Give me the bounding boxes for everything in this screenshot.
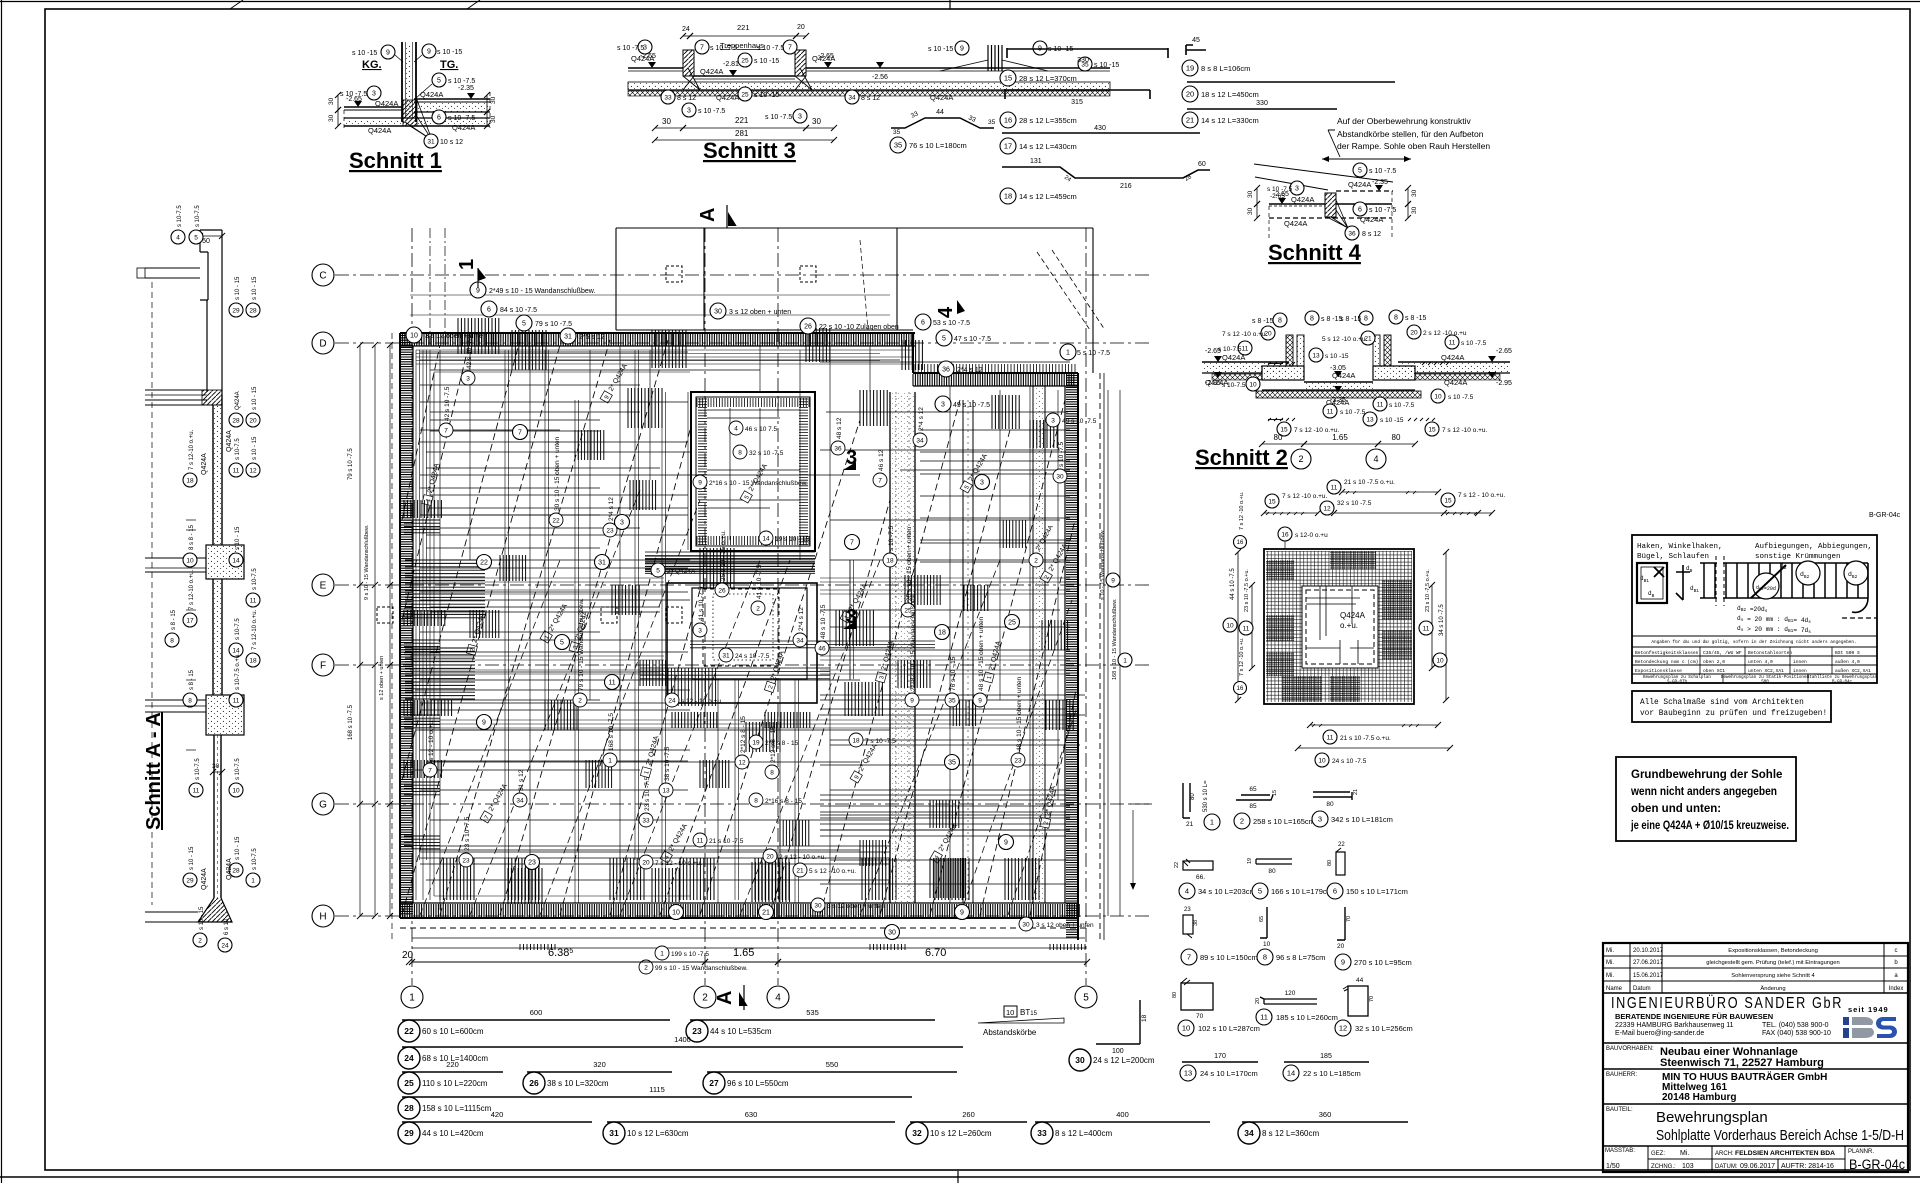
svg-text:-2.65: -2.65 <box>1270 193 1285 200</box>
svg-text:3: 3 <box>372 90 376 97</box>
S4 ramp slope lines <box>1254 164 1393 182</box>
AA upper wall <box>206 300 208 392</box>
svg-text:342 s 10 L=181cm: 342 s 10 L=181cm <box>1331 815 1393 824</box>
svg-text:46 s 10 7.5: 46 s 10 7.5 <box>745 426 778 433</box>
upper pit inner lines <box>707 408 800 540</box>
svg-text:28 s 12 L=370cm: 28 s 12 L=370cm <box>1019 74 1077 83</box>
svg-text:12: 12 <box>249 467 257 474</box>
svg-text:18: 18 <box>886 557 894 564</box>
svg-text:21: 21 <box>762 909 770 916</box>
svg-text:Bewehrungsplan zu Statik-Posit: Bewehrungsplan zu Statik-Positionen <box>1721 675 1809 680</box>
svg-text:5: 5 <box>1258 887 1262 896</box>
svg-text:4: 4 <box>1185 887 1189 896</box>
svg-text:46 s 12: 46 s 12 <box>878 449 885 471</box>
svg-text:2 s 12 -10 o.+u: 2 s 12 -10 o.+u <box>1423 330 1467 337</box>
schedule 25 <box>402 1071 503 1073</box>
svg-text:48 s 10 -7.5: 48 s 10 -7.5 <box>820 604 827 639</box>
svg-text:80: 80 <box>1274 433 1283 442</box>
svg-text:3 s 12 oben + unten: 3 s 12 oben + unten <box>425 333 487 340</box>
svg-text:20: 20 <box>402 950 414 961</box>
S1 dim right 30-30 <box>486 95 488 112</box>
svg-text:12: 12 <box>1339 1024 1347 1033</box>
svg-text:30: 30 <box>814 902 822 909</box>
svg-text:10: 10 <box>1226 622 1234 629</box>
svg-text:24: 24 <box>682 26 690 33</box>
svg-text:9 s 10 - 15 Wandanschlußbew.: 9 s 10 - 15 Wandanschlußbew. <box>364 524 370 600</box>
svg-text:9: 9 <box>476 287 480 294</box>
svg-text:2* Q424A: 2* Q424A <box>667 568 696 575</box>
svg-text:7 s 12 -10 o.+u.: 7 s 12 -10 o.+u. <box>1282 493 1328 500</box>
svg-text:außen XC2,XA1: außen XC2,XA1 <box>1835 668 1871 674</box>
wall axis dashdot b <box>444 228 446 345</box>
center pit left cluster <box>668 668 716 706</box>
svg-text:2*4 s 12: 2*4 s 12 <box>608 497 615 521</box>
svg-text:6 s 10: 6 s 10 <box>224 918 230 935</box>
item 3 shape <box>1313 792 1352 800</box>
svg-text:5: 5 <box>1358 167 1362 174</box>
svg-text:50: 50 <box>202 238 210 245</box>
S3 callout 3 left <box>638 40 652 54</box>
item 9 shape <box>1337 907 1345 940</box>
axis 1 vline <box>411 228 413 985</box>
svg-text:Betonfestigkeitsklassen:: Betonfestigkeitsklassen: <box>1635 650 1701 656</box>
svg-text:Q424A: Q424A <box>930 93 953 102</box>
column dashed squares <box>666 266 682 282</box>
svg-text:15: 15 <box>1004 74 1012 83</box>
title block group <box>1603 943 1908 1172</box>
svg-text:7: 7 <box>700 44 704 51</box>
bar item 35 shape zigzag <box>891 118 994 128</box>
AA dim 30 <box>213 771 222 773</box>
S2 pit right block <box>1373 366 1415 380</box>
S1 level -2.35 <box>467 93 475 99</box>
item 1 shape <box>1183 783 1190 818</box>
svg-text:32 s 10 -7.5: 32 s 10 -7.5 <box>749 450 784 457</box>
svg-text:2: 2 <box>578 697 582 704</box>
schedule 30 bracket <box>1096 1000 1140 1044</box>
schedule item 10 BT15 <box>1004 1006 1017 1017</box>
svg-text:s 10 - 15: s 10 - 15 <box>189 846 195 870</box>
sheet bottom edge <box>0 1176 1920 1178</box>
extra right rows <box>920 429 1070 431</box>
svg-text:s 10 -7.5: s 10 -7.5 <box>698 108 725 115</box>
svg-text:7 s 12 - 10 o.+u.: 7 s 12 - 10 o.+u. <box>1458 492 1505 499</box>
svg-text:2*16 s 8 - 15: 2*16 s 8 - 15 <box>765 798 802 805</box>
S3 callout 9 right a <box>955 41 969 55</box>
AA callouts <box>189 230 203 244</box>
lower left rows <box>415 689 690 691</box>
svg-text:s 10-7.5: s 10-7.5 <box>195 205 201 227</box>
svg-text:30: 30 <box>1411 189 1418 197</box>
svg-text:16: 16 <box>1237 540 1244 546</box>
svg-text:66.: 66. <box>1196 874 1205 881</box>
S1 callout 31 <box>424 134 438 148</box>
slab top edge left <box>400 332 915 334</box>
svg-text:10: 10 <box>1006 1008 1014 1017</box>
svg-text:10: 10 <box>1182 1024 1190 1033</box>
svg-text:18: 18 <box>1004 192 1012 201</box>
svg-text:s 10 -7.5: s 10 -7.5 <box>888 525 895 551</box>
plan right dense rows <box>820 794 1070 796</box>
svg-text:11: 11 <box>1260 1013 1268 1022</box>
svg-text:innen: innen <box>1793 668 1807 674</box>
svg-text:Datum: Datum <box>1633 986 1651 992</box>
bar item 15 shape <box>1007 48 1168 58</box>
svg-text:80: 80 <box>1327 860 1333 866</box>
svg-text:2*12 s 8 - 15: 2*12 s 8 - 15 <box>770 726 777 763</box>
diagonal rebar dashed lines <box>402 340 470 620</box>
svg-text:102 s 10 L=287cm: 102 s 10 L=287cm <box>1198 1024 1260 1033</box>
svg-text:36: 36 <box>1348 230 1356 237</box>
svg-text:23 s 10 -7.5: 23 s 10 -7.5 <box>464 816 471 851</box>
svg-text:5: 5 <box>942 335 946 342</box>
svg-text:47 s 10 -7.5: 47 s 10 -7.5 <box>954 336 991 343</box>
svg-text:33: 33 <box>664 94 672 101</box>
svg-text:10 s 12 L=260cm: 10 s 12 L=260cm <box>930 1129 992 1138</box>
item 2 shape <box>1236 795 1273 800</box>
svg-text:1: 1 <box>409 993 415 1004</box>
item 5 label <box>1252 883 1268 899</box>
svg-text:42 s 10 -7.5: 42 s 10 -7.5 <box>466 334 473 369</box>
S4 fan to 36 <box>1327 200 1348 228</box>
svg-text:10: 10 <box>1249 381 1257 388</box>
svg-text:23: 23 <box>462 857 470 864</box>
svg-text:2*4 s 12: 2*4 s 12 <box>957 367 983 374</box>
svg-text:30: 30 <box>212 763 220 770</box>
svg-text:150 s 10 L=171cm: 150 s 10 L=171cm <box>1346 887 1408 896</box>
svg-text:7: 7 <box>518 429 522 436</box>
S3 left column hatched <box>683 50 694 76</box>
pit detail callout 15 left top <box>1265 494 1279 508</box>
svg-text:3 s 12 oben + unten: 3 s 12 oben + unten <box>827 903 885 910</box>
svg-text:Betonstahlsorten: Betonstahlsorten <box>1748 650 1792 656</box>
S1 dim left 30-30 <box>337 95 339 110</box>
sheet edge top <box>0 1 1920 3</box>
svg-text:23 s 10 -7.5: 23 s 10 -7.5 <box>644 776 651 811</box>
bar item 18 label <box>1000 188 1016 204</box>
svg-text:35: 35 <box>894 141 902 150</box>
S4 double arrow <box>1322 158 1411 160</box>
AA footing <box>198 898 232 922</box>
svg-text:34: 34 <box>796 637 804 644</box>
item 4 shape <box>1183 861 1213 870</box>
svg-text:Haken, Winkelhaken,: Haken, Winkelhaken, <box>1637 543 1723 551</box>
svg-text:15: 15 <box>1428 426 1436 433</box>
svg-text:25 s 10 - 15 o.+u.: 25 s 10 - 15 o.+u. <box>720 530 727 581</box>
svg-text:29: 29 <box>404 1128 414 1138</box>
svg-text:4: 4 <box>734 425 738 432</box>
item 9 label <box>1335 954 1351 970</box>
svg-text:7: 7 <box>1187 953 1191 962</box>
svg-text:8: 8 <box>770 769 774 776</box>
item 7 shape <box>1183 915 1193 934</box>
svg-text:168 s 10 -7.5: 168 s 10 -7.5 <box>348 704 354 740</box>
legend box group <box>1632 535 1878 685</box>
svg-text:53 s 10 -7.5: 53 s 10 -7.5 <box>933 320 970 327</box>
svg-text:5: 5 <box>194 234 198 241</box>
svg-text:22 s 10 L=185cm: 22 s 10 L=185cm <box>1303 1069 1361 1078</box>
main plan group <box>312 205 1152 1010</box>
svg-text:48 s 12: 48 s 12 <box>836 417 843 439</box>
svg-text:Bügel, Schlaufen: Bügel, Schlaufen <box>1637 553 1709 561</box>
svg-text:21: 21 <box>1186 116 1194 125</box>
svg-text:Q424A: Q424A <box>1348 180 1371 189</box>
svg-text:-2.35: -2.35 <box>458 85 474 92</box>
svg-text:44: 44 <box>936 109 944 116</box>
wall channel 1 <box>889 392 891 903</box>
pit detail inner white <box>1302 586 1378 668</box>
svg-text:gleichgestellt gem. Prüfung (t: gleichgestellt gem. Prüfung (telef.) mit… <box>1706 960 1839 966</box>
svg-text:30: 30 <box>1411 206 1418 214</box>
S3 callout 34 <box>845 90 859 104</box>
S2 levels <box>1214 356 1222 362</box>
svg-text:7 s 12 -10 o.+u.: 7 s 12 -10 o.+u. <box>1239 491 1245 530</box>
svg-text:s 10 -7.5: s 10 -7.5 <box>340 91 367 98</box>
axis D line <box>335 342 1152 344</box>
slab bottom dashed line <box>400 927 1090 929</box>
svg-text:7 s 12 -10 o.+u.: 7 s 12 -10 o.+u. <box>1239 637 1245 676</box>
svg-text:89 s 10 L=150cm: 89 s 10 L=150cm <box>1200 953 1258 962</box>
svg-text:8 s 8 L=106cm: 8 s 8 L=106cm <box>1201 64 1250 73</box>
svg-text:PLANNR.: PLANNR. <box>1848 1149 1874 1155</box>
svg-text:11: 11 <box>1331 484 1338 491</box>
svg-text:1: 1 <box>1066 349 1070 356</box>
svg-text:49 s 10 -7.5: 49 s 10 -7.5 <box>1062 418 1097 425</box>
schedule 27 <box>707 1071 957 1073</box>
S4 dims left <box>1256 188 1258 204</box>
svg-text:35: 35 <box>948 697 956 704</box>
svg-text:Änderung: Änderung <box>1760 985 1785 992</box>
svg-text:2*5 s 12: 2*5 s 12 <box>579 334 605 341</box>
svg-text:DATUM:: DATUM: <box>1715 1164 1738 1170</box>
svg-text:110 s 10 L=220cm: 110 s 10 L=220cm <box>422 1079 488 1088</box>
svg-text:76 s 10 - 15: 76 s 10 - 15 <box>950 656 957 691</box>
svg-text:s 10 -7.5: s 10 -7.5 <box>448 78 475 85</box>
svg-text:Q424A: Q424A <box>1332 371 1355 380</box>
svg-text:3 s 12 oben + unten: 3 s 12 oben + unten <box>1036 922 1094 929</box>
svg-text:19: 19 <box>1247 858 1253 864</box>
svg-text:1: 1 <box>1210 818 1214 827</box>
svg-text:Auf der Oberbewehrung konstruk: Auf der Oberbewehrung konstruktiv <box>1337 116 1471 126</box>
S4 note bracket <box>1328 130 1340 157</box>
svg-text:20.10.2017: 20.10.2017 <box>1633 948 1664 954</box>
svg-text:s 8 -15: s 8 -15 <box>1405 315 1427 322</box>
svg-text:10: 10 <box>1436 657 1444 664</box>
svg-text:23 s 10 -7.5 o.+u.: 23 s 10 -7.5 o.+u. <box>1425 569 1431 612</box>
item 8 label <box>1257 949 1273 965</box>
svg-text:24 s 10 -7.5: 24 s 10 -7.5 <box>735 653 770 660</box>
axis C line <box>335 274 1152 276</box>
center pit right rows <box>690 641 935 648</box>
left edge big combs <box>405 560 485 618</box>
svg-text:11: 11 <box>193 787 200 794</box>
pit detail callout 11 top <box>1342 491 1438 493</box>
svg-text:2*4 s 12: 2*4 s 12 <box>798 607 805 631</box>
svg-text:18 s 12 L=450cm: 18 s 12 L=450cm <box>1201 90 1259 99</box>
svg-text:Q424A: Q424A <box>368 126 391 135</box>
svg-text:1: 1 <box>660 950 664 957</box>
svg-text:49 s 10 -7.5: 49 s 10 -7.5 <box>953 402 990 409</box>
svg-text:20: 20 <box>1337 943 1345 950</box>
item 7 label <box>1181 949 1197 965</box>
svg-text:20: 20 <box>1186 90 1194 99</box>
svg-text:22: 22 <box>404 1026 414 1036</box>
svg-text:s 10 -7.5: s 10 -7.5 <box>765 114 792 121</box>
svg-text:18: 18 <box>249 657 257 664</box>
legend circle big <box>1753 573 1779 599</box>
svg-text:s 10 -15: s 10 -15 <box>754 92 779 99</box>
svg-text:70: 70 <box>1369 996 1375 1002</box>
svg-text:221: 221 <box>737 23 750 32</box>
svg-text:s 10 - 15: s 10 - 15 <box>252 276 258 300</box>
svg-text:FAX (040) 538 900-10: FAX (040) 538 900-10 <box>1762 1030 1831 1037</box>
svg-text:2 s 12 - 10 o.+u.: 2 s 12 - 10 o.+u. <box>779 854 826 861</box>
svg-text:7: 7 <box>444 427 448 434</box>
svg-text:Schnitt 3: Schnitt 3 <box>703 138 796 163</box>
svg-text:-2.95: -2.95 <box>1496 380 1512 387</box>
S3 callout 35 <box>1078 57 1092 71</box>
right outer wall face <box>1103 373 1105 940</box>
inner frame left lines <box>415 350 417 900</box>
bar item 35 label <box>890 137 906 153</box>
svg-text:s 10 - 15: s 10 - 15 <box>235 526 241 550</box>
schedule 32 <box>910 1121 1027 1123</box>
svg-text:216: 216 <box>1120 183 1132 190</box>
svg-text:8: 8 <box>1278 317 1282 324</box>
axis circle D <box>312 332 334 354</box>
schedule 31 <box>607 1121 895 1123</box>
svg-text:22: 22 <box>1338 842 1345 848</box>
S3 callout 33 <box>661 90 675 104</box>
S2 pit floor <box>1304 381 1373 383</box>
Schnitt A-A group <box>137 205 260 952</box>
svg-text:außen 4,0: außen 4,0 <box>1835 659 1860 665</box>
svg-text:21: 21 <box>1186 821 1194 828</box>
svg-text:330: 330 <box>1256 100 1268 107</box>
S3 left wing slab <box>628 67 683 69</box>
svg-text:530 s 10 L=: 530 s 10 L= <box>1203 780 1209 812</box>
svg-text:31: 31 <box>722 652 730 659</box>
axis circle 1 bottom <box>401 986 423 1008</box>
svg-text:4: 4 <box>935 306 957 318</box>
svg-text:6: 6 <box>1358 206 1362 213</box>
svg-text:Schnitt 2: Schnitt 2 <box>1195 445 1288 470</box>
S3 mid slab <box>694 75 795 77</box>
building outline top block <box>616 228 1093 373</box>
svg-text:185 s 10 L=260cm: 185 s 10 L=260cm <box>1276 1013 1338 1022</box>
svg-text:s 10 -7.5: s 10 -7.5 <box>1369 168 1396 175</box>
svg-text:15.06.2017: 15.06.2017 <box>1633 973 1664 979</box>
svg-text:s 12-0 o.+u: s 12-0 o.+u <box>1295 532 1328 539</box>
svg-text:84 s 10 -7.5: 84 s 10 -7.5 <box>500 307 537 314</box>
svg-text:Q424A: Q424A <box>1284 219 1307 228</box>
axis circle F <box>312 654 334 676</box>
svg-text:18: 18 <box>1141 1014 1148 1022</box>
S3 bottom crosshatch strip <box>628 91 1110 96</box>
svg-text:5 s 12 - 10 o.+u.: 5 s 12 - 10 o.+u. <box>809 868 856 875</box>
AA wall mid2 <box>212 579 214 695</box>
svg-text:8 s 12: 8 s 12 <box>677 95 696 102</box>
legend ladder band <box>1700 562 1868 564</box>
svg-text:11: 11 <box>1327 408 1334 415</box>
svg-text:3 s 12 oben + unten: 3 s 12 oben + unten <box>729 309 791 316</box>
svg-text:28: 28 <box>232 417 240 424</box>
plan vertical rebar lines <box>439 350 441 910</box>
svg-text:25: 25 <box>741 91 749 98</box>
svg-text:22 s 10 -10 Zulagen oben: 22 s 10 -10 Zulagen oben <box>819 324 899 331</box>
svg-text:Expositionsklasse: Expositionsklasse <box>1635 668 1682 674</box>
svg-text:76 s 10 L=180cm: 76 s 10 L=180cm <box>909 141 967 150</box>
AA bottom wall <box>213 735 215 898</box>
pit detail right dims <box>1431 585 1433 668</box>
svg-text:TG.: TG. <box>440 59 458 71</box>
svg-text:s 10 - 15: s 10 - 15 <box>235 276 241 300</box>
svg-text:17: 17 <box>1004 142 1012 151</box>
svg-text:AUFTR: 2814-16: AUFTR: 2814-16 <box>1781 1163 1834 1170</box>
bottom dimension row <box>412 961 705 963</box>
inner boundary rect partial <box>434 372 690 896</box>
svg-text:166 s 10 L=179cm: 166 s 10 L=179cm <box>1271 887 1333 896</box>
item 11 shape <box>1260 997 1317 1004</box>
svg-text:s 10-7.5: s 10-7.5 <box>235 618 241 640</box>
svg-text:25: 25 <box>1008 619 1016 626</box>
item 1 label <box>1204 814 1220 830</box>
svg-text:s 10 -15: s 10 -15 <box>928 46 953 53</box>
svg-text:33: 33 <box>1037 1128 1047 1138</box>
S1 callout 9 right <box>422 44 436 58</box>
bar item 19 shape <box>1186 45 1206 55</box>
svg-text:20: 20 <box>1255 998 1261 1004</box>
S3 top dimension 24-221-20 <box>683 35 690 37</box>
svg-text:19 s 10 - 15: 19 s 10 - 15 <box>775 536 810 543</box>
svg-text:je eine Q424A + Ø10/15 kreuzwe: je eine Q424A + Ø10/15 kreuzweise. <box>1630 820 1789 832</box>
svg-text:2*4 s 12: 2*4 s 12 <box>918 407 925 431</box>
axis 4 vline <box>777 228 779 985</box>
diagonal labels <box>422 462 441 506</box>
bar item 15 label <box>1000 70 1016 86</box>
svg-text:Q424A: Q424A <box>201 868 208 890</box>
svg-text:9: 9 <box>1341 958 1345 967</box>
center pit bottom combs <box>672 712 717 728</box>
svg-text:11: 11 <box>250 597 257 604</box>
axis H line <box>335 915 1152 917</box>
svg-text:s 10 -7.5: s 10 -7.5 <box>1389 402 1415 409</box>
left vertical pairs <box>504 350 506 900</box>
svg-text:10: 10 <box>1434 393 1442 400</box>
svg-text:8: 8 <box>754 797 758 804</box>
svg-text:185: 185 <box>1320 1053 1332 1060</box>
svg-text:8 s 12: 8 s 12 <box>1362 231 1381 238</box>
extra callouts scatter <box>513 425 528 440</box>
center pit outer <box>667 583 817 703</box>
Schnitt 3 detail group <box>617 23 1119 163</box>
svg-text:2: 2 <box>702 993 708 1004</box>
S3 dim 30-221-30 <box>655 127 683 129</box>
svg-text:20: 20 <box>797 24 805 31</box>
schedule 33 <box>1035 1121 1210 1123</box>
svg-text:-2.81: -2.81 <box>723 61 739 68</box>
item 13 label <box>1180 1065 1196 1081</box>
svg-text:168 s 10 -7.5: 168 s 10 -7.5 <box>608 713 615 751</box>
S3 callout 25 lower <box>738 87 752 101</box>
svg-text:96 s 10 L=550cm: 96 s 10 L=550cm <box>727 1079 789 1088</box>
svg-text:Q424A: Q424A <box>201 453 208 475</box>
svg-text:7: 7 <box>788 44 792 51</box>
svg-text:2: 2 <box>198 937 202 944</box>
bauteil row <box>1603 1103 1908 1105</box>
svg-text:H: H <box>319 912 326 923</box>
title bottom row <box>1603 1145 1908 1147</box>
